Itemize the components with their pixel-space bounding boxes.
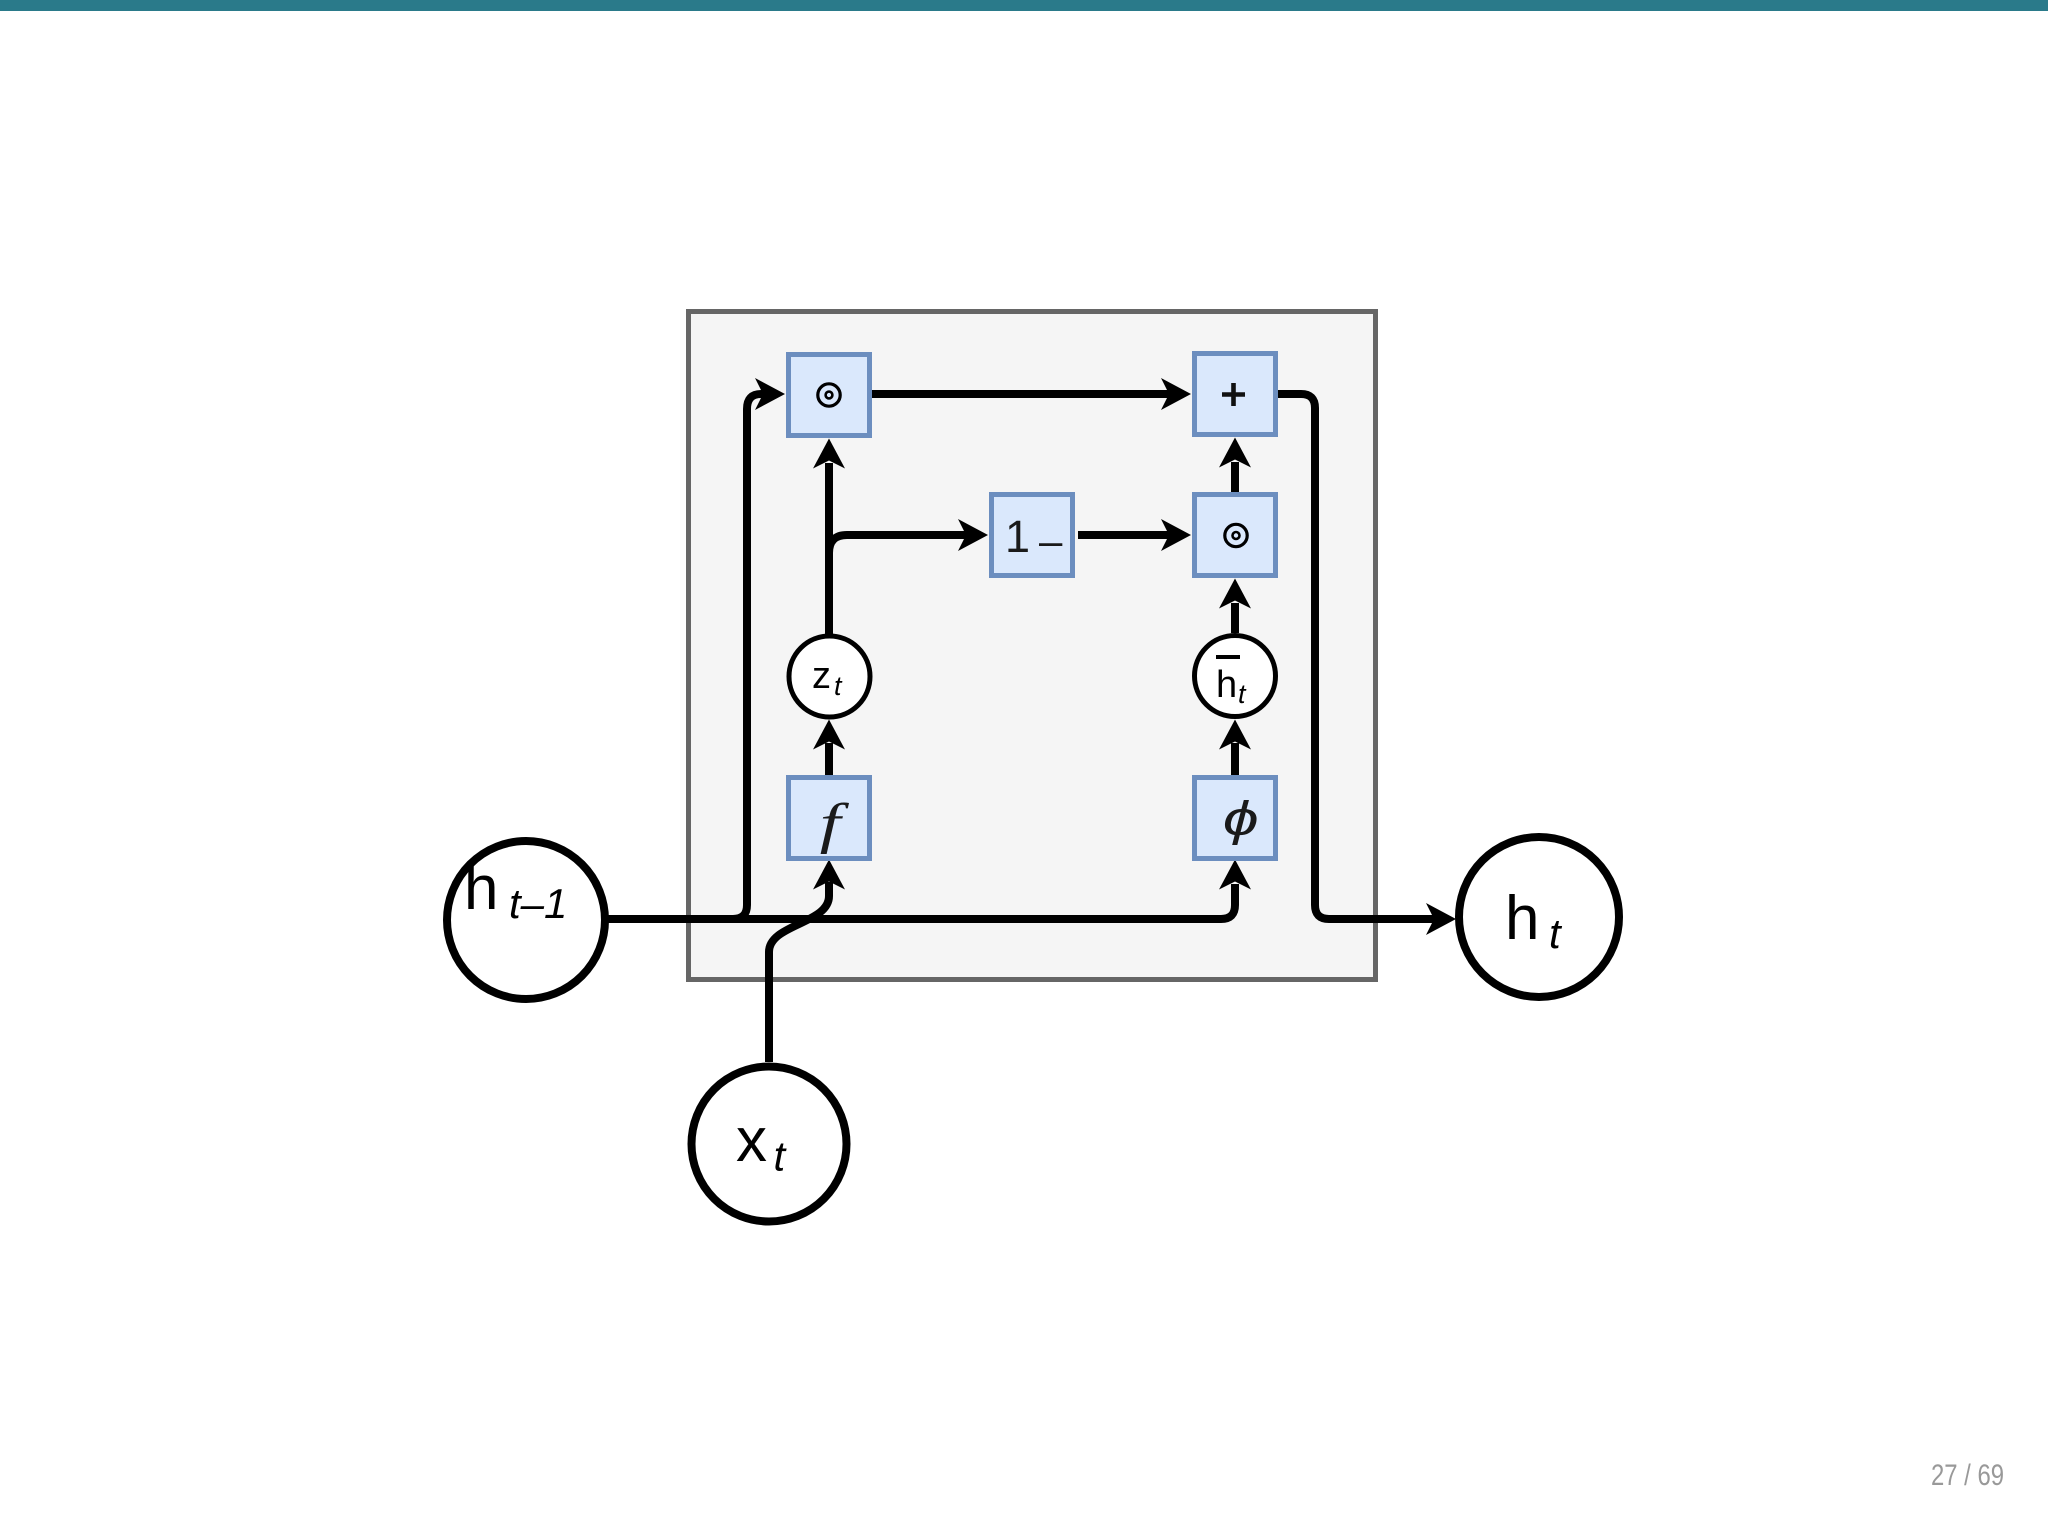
wire phi to hbar_t: [1231, 743, 1239, 775]
wire f to z_t: [825, 743, 833, 775]
op box f: [789, 778, 870, 859]
arrowhead into 1-minus left: [958, 519, 988, 551]
wire branch from z line to 1-minus box: [829, 535, 966, 553]
arrowhead into plus left: [1161, 378, 1191, 410]
wire branch from h_{t-1} line up to circled-dot A: [733, 394, 763, 919]
arrowhead into f bottom: [813, 860, 845, 890]
wire x_t to f (S-curve): [769, 882, 829, 1062]
arrowhead into circled-dot B bottom: [1219, 579, 1251, 609]
wire z_t to circled-dot A: [825, 463, 833, 634]
svg-text:h: h: [1216, 664, 1237, 706]
arrowhead into circled-dot B left: [1161, 519, 1191, 551]
node hbar_t: [1195, 636, 1276, 717]
svg-text:1: 1: [1005, 511, 1030, 562]
svg-text:t–1: t–1: [509, 880, 567, 927]
op box 1-minus: [992, 495, 1073, 576]
svg-text:x: x: [736, 1106, 767, 1175]
arrowhead into circled-dot A left: [755, 378, 785, 410]
GRU cell container box: [689, 312, 1376, 980]
op box phi: [1195, 778, 1276, 859]
node h_t: [1459, 837, 1619, 997]
arrowhead into hbar_t bottom: [1219, 720, 1251, 750]
arrowhead into h_t left: [1426, 903, 1456, 935]
op box circled-dot A: [789, 355, 870, 436]
svg-text:h: h: [1505, 884, 1539, 953]
arrowhead into phi bottom: [1219, 860, 1251, 890]
wire hbar_t to circled-dot B: [1231, 603, 1239, 633]
wire circled-dot A to plus: [872, 390, 1169, 398]
wire circled-dot B to plus: [1231, 462, 1239, 492]
wire h_{t-1} to phi (long horizontal with elbow up): [607, 884, 1235, 919]
svg-text:z: z: [812, 655, 831, 697]
wire plus to h_t (right elbow down then right): [1278, 394, 1434, 919]
svg-text:h: h: [464, 854, 498, 923]
op box circled-dot B: [1195, 495, 1276, 576]
node z_t: [789, 636, 870, 717]
svg-text:27 / 69: 27 / 69: [1931, 1459, 2004, 1492]
wire 1-minus to circled-dot B: [1078, 531, 1169, 539]
node h_{t-1}: [447, 841, 605, 999]
arrowhead into plus bottom: [1219, 438, 1251, 468]
op box plus: [1195, 354, 1276, 435]
svg-text:–: –: [1039, 517, 1063, 564]
svg-text:ϕ: ϕ: [1223, 793, 1259, 846]
node x_t: [692, 1067, 847, 1222]
top teal header bar: [0, 0, 2048, 11]
arrowhead into z_t bottom: [813, 720, 845, 750]
arrowhead into circled-dot A bottom: [813, 439, 845, 469]
